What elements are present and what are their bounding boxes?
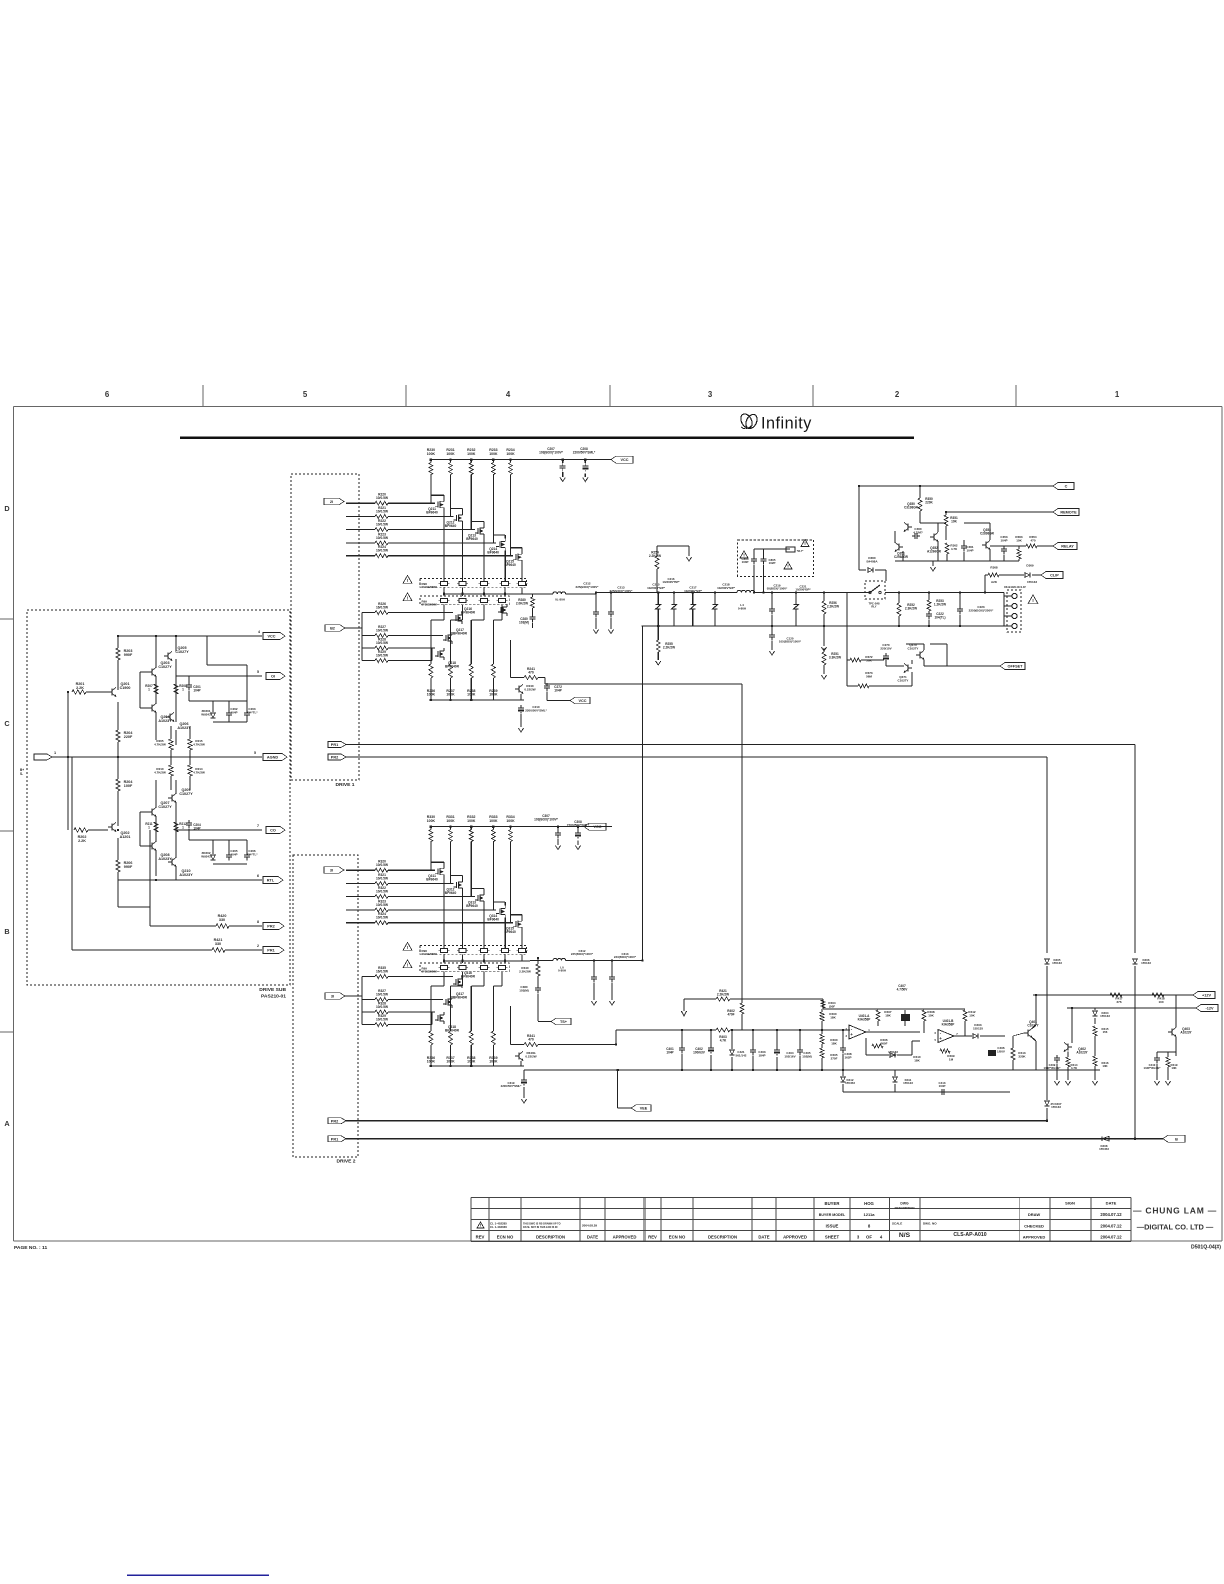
svg-text:REV: REV — [476, 1235, 485, 1240]
wire PR2 bus upper — [346, 756, 1047, 758]
resistor R327 10/0.5W — [376, 989, 389, 997]
junction — [731, 1029, 733, 1031]
junction — [67, 691, 69, 693]
capacitor C212 225BOX — [576, 582, 600, 589]
fusible resistor element — [459, 965, 466, 969]
junction — [945, 511, 947, 513]
wire strip2 drop lower — [462, 972, 464, 986]
svg-text:APPROVED: APPROVED — [1023, 1235, 1046, 1240]
svg-text:— CHUNG LAM —: — CHUNG LAM — — [1133, 1206, 1217, 1216]
svg-text:DRIVE 1: DRIVE 1 — [335, 782, 354, 788]
svg-text:220/10V: 220/10V — [880, 646, 891, 650]
wire main out bus upper — [444, 593, 530, 595]
svg-text:224*TL*: 224*TL* — [246, 852, 258, 856]
resistor R205 4.7K/2W — [169, 739, 173, 750]
svg-text:C1027Y: C1027Y — [908, 646, 919, 650]
svg-text:BF9640R: BF9640R — [453, 632, 468, 636]
transistor Q215 BF9640 — [517, 554, 519, 561]
svg-text:103(BOX)*100V*: 103(BOX)*100V* — [534, 817, 559, 821]
junction — [752, 1029, 754, 1031]
fusible resistor strip 1 — [420, 579, 527, 588]
ground r254 — [686, 557, 691, 561]
junction — [430, 1065, 432, 1067]
junction — [1071, 1007, 1073, 1009]
svg-text:C1027Y: C1027Y — [175, 650, 189, 654]
svg-text:DATE: DATE — [758, 1235, 769, 1240]
svg-text:155133: 155133 — [1141, 961, 1151, 965]
connector OFFSET out — [1000, 663, 1025, 670]
junction — [509, 825, 511, 827]
fusible resistor element — [502, 948, 509, 952]
capacitor C216 10/200V — [662, 577, 680, 584]
svg-text:10/0.5W: 10/0.5W — [376, 877, 389, 881]
wire RTL rail — [118, 879, 262, 881]
transistor Q315 BF9640 — [517, 921, 519, 928]
svg-text:10/0.5W: 10/0.5W — [376, 536, 389, 540]
svg-text:RTL: RTL — [267, 879, 275, 883]
svg-text:N/S: N/S — [899, 1232, 911, 1239]
wire strip2 drop lower — [501, 972, 503, 986]
fusible resistor strip 1 — [420, 946, 527, 955]
wire PR1 bus lower — [346, 1138, 1163, 1140]
svg-text:RLY: RLY — [871, 605, 876, 609]
svg-text:-12V: -12V — [1205, 1007, 1213, 1011]
svg-text:155133: 155133 — [1051, 1105, 1061, 1109]
svg-text:APPROVED: APPROVED — [613, 1235, 637, 1240]
resistor R226 16/0.5W — [376, 602, 389, 610]
svg-text:10/0.5W: 10/0.5W — [376, 523, 389, 527]
junction — [753, 591, 755, 593]
svg-text:10/200V*BP*: 10/200V*BP* — [717, 586, 736, 590]
terminal pin — [1012, 613, 1017, 618]
wire opamp bus B — [616, 1029, 716, 1031]
svg-text:102(M): 102(M) — [802, 1054, 812, 1058]
svg-text:2.2K: 2.2K — [76, 686, 84, 690]
svg-text:BF9640: BF9640 — [504, 930, 516, 934]
svg-text:102/16V: 102/16V — [784, 1054, 795, 1058]
svg-text:SHEET: SHEET — [825, 1235, 840, 1240]
capacitor C220 105BOX — [771, 626, 773, 632]
svg-text:PR2: PR2 — [267, 925, 274, 929]
resistor R241 470 — [524, 676, 538, 680]
svg-text:CHECKED: CHECKED — [1024, 1224, 1044, 1229]
wire PR1 bus upper — [346, 744, 1135, 746]
resistor R413 320K — [1018, 1051, 1026, 1058]
junction — [771, 591, 773, 593]
transistor Q210 A1023Y — [171, 859, 173, 866]
wire vcc top rail — [431, 826, 612, 828]
transistor Q370 C1027Y — [919, 652, 921, 659]
svg-text:W9243: W9243 — [201, 712, 211, 716]
wire PR2 bus lower — [346, 1120, 1047, 1122]
svg-text:100K: 100K — [446, 452, 455, 456]
fusible resistor element — [481, 598, 488, 602]
svg-text:10/0.5W: 10/0.5W — [376, 510, 389, 514]
capacitor C219 105BOX — [767, 584, 788, 591]
svg-text:104P: 104P — [193, 688, 200, 692]
fusible resistor element — [459, 948, 466, 952]
svg-text:155453: 155453 — [845, 1081, 855, 1085]
transistor Q204 A1023Y — [151, 705, 153, 712]
junction — [557, 825, 559, 827]
wire opamp A out — [866, 1031, 920, 1033]
svg-text:2004.08.29: 2004.08.29 — [582, 1224, 597, 1228]
svg-text:18K: 18K — [830, 1015, 836, 1019]
fusible resistor element — [459, 598, 466, 602]
svg-text:DESCRIPTION: DESCRIPTION — [536, 1235, 565, 1240]
capacitor C404 102/16V — [784, 1051, 795, 1058]
capacitor C319 2200/50V — [523, 1077, 525, 1080]
svg-text:2200/50V*SML*: 2200/50V*SML* — [573, 450, 596, 454]
junction — [117, 756, 119, 758]
junction — [615, 1043, 617, 1045]
svg-text:1: 1 — [182, 825, 184, 829]
transistor Q371 C1027Y — [907, 665, 909, 672]
svg-text:100K: 100K — [427, 452, 436, 456]
svg-text:4.7K/2W: 4.7K/2W — [154, 770, 166, 774]
wire D405 down — [1046, 966, 1048, 1100]
resistor R333 100K — [489, 815, 498, 823]
resistor R334 100K — [506, 815, 515, 823]
resistor R236 100K — [430, 620, 432, 664]
svg-text:103(M): 103(M) — [519, 988, 529, 992]
junction — [752, 1069, 754, 1071]
resistor R256 2.2K/2W — [823, 593, 825, 602]
svg-text:2250(BOX)*250V*: 2250(BOX)*250V* — [969, 608, 994, 612]
svg-text:10/0.5W: 10/0.5W — [376, 549, 389, 553]
capacitor C207 103BOX — [539, 447, 564, 454]
transistor Q208 A1023Y — [151, 843, 153, 850]
connector CO out — [266, 827, 285, 834]
svg-text:225(BOX)*100V*: 225(BOX)*100V* — [571, 952, 594, 956]
wire q401 collector to rail — [1032, 1025, 1036, 1029]
ground q cluster — [932, 561, 934, 566]
junction — [611, 959, 613, 961]
title block headers — [476, 1235, 883, 1240]
junction — [616, 1069, 618, 1071]
svg-text:Infinity: Infinity — [761, 415, 812, 433]
junction — [1035, 994, 1037, 996]
svg-text:10K: 10K — [1171, 1066, 1177, 1070]
svg-text:4: 4 — [506, 390, 511, 399]
svg-text:DATE: DATE — [1106, 1201, 1117, 1206]
diode D408 155453 — [1102, 1136, 1109, 1141]
title block dwg fields — [892, 1202, 987, 1240]
warning triangle strip2 — [403, 593, 412, 601]
svg-text:BUYER: BUYER — [825, 1201, 840, 1206]
junction — [584, 458, 586, 460]
resistor R322 10/0.5W — [376, 886, 389, 894]
rows from 3I2 connector — [345, 995, 362, 997]
svg-text:2.0K/2W: 2.0K/2W — [516, 601, 528, 605]
wire strip to bank jogs lower — [431, 985, 444, 987]
svg-text:HOG: HOG — [864, 1201, 874, 1206]
inductor L2 0-80H — [553, 592, 566, 594]
svg-text:560F: 560F — [881, 1041, 888, 1045]
svg-text:BF9640R: BF9640R — [461, 611, 476, 615]
wire strip to bank jogs upper — [431, 619, 444, 621]
resistor R220 10/0.5W — [376, 493, 389, 501]
connector B2 — [325, 625, 345, 632]
junction — [577, 825, 579, 827]
wire opamp loop bottom — [843, 1091, 1010, 1093]
junction — [776, 1029, 778, 1031]
svg-text:SIGN: SIGN — [1065, 1201, 1075, 1206]
capacitor C401 104P — [666, 1047, 674, 1054]
junction — [928, 591, 930, 593]
svg-text:R368: R368 — [990, 566, 998, 570]
svg-text:220K: 220K — [925, 500, 933, 504]
junction — [898, 625, 900, 627]
wire feed vertical x742 — [545, 683, 742, 685]
inductor L4 0-80H — [737, 590, 755, 592]
wires offset cluster — [885, 662, 887, 666]
transistor Q209 C1027Y — [171, 795, 173, 802]
svg-text:(50F: (50F — [829, 1004, 835, 1008]
resistor R237 100K — [450, 620, 452, 664]
junction — [710, 1069, 712, 1071]
diode D412 155453 — [845, 1078, 855, 1085]
svg-text:CO: CO — [270, 829, 276, 833]
fusible resistor element — [441, 598, 448, 602]
svg-text:BUYER MODEL: BUYER MODEL — [819, 1213, 846, 1217]
resistor R222 10/0.5W — [376, 519, 389, 527]
transistor Q401 C1027Y — [1027, 1030, 1029, 1037]
junction — [842, 1029, 844, 1031]
resistor R332 100K — [467, 815, 476, 823]
junction — [461, 960, 463, 962]
svg-text:7: 7 — [257, 824, 259, 828]
wire opamp rail A — [823, 1008, 965, 1010]
svg-text:PAS210-01: PAS210-01 — [261, 994, 286, 1000]
resistor R330 100K — [427, 815, 436, 823]
transistor Q217 BF9640R — [447, 635, 449, 642]
svg-text:105(BOX)*100V*: 105(BOX)*100V* — [779, 640, 802, 644]
fusible resistor strip 2 — [420, 963, 509, 972]
svg-text:330: 330 — [215, 942, 221, 946]
wire ch2 emitter bus — [524, 1069, 1100, 1071]
resistor R336 100K — [430, 986, 432, 1031]
capacitor C222 104TL — [928, 611, 930, 614]
svg-text:5: 5 — [303, 390, 308, 399]
junction — [799, 1069, 801, 1071]
connector B3 — [325, 993, 345, 1000]
column ticks — [202, 385, 204, 407]
svg-text:4.7K/2W: 4.7K/2W — [193, 770, 205, 774]
svg-text:DWG: DWG — [900, 1202, 909, 1206]
ground stub input rail — [683, 999, 685, 1011]
junction — [919, 485, 921, 487]
connector AGND out — [263, 754, 287, 761]
junction — [593, 959, 595, 961]
title block buyer fields — [819, 1201, 875, 1229]
connector OI out — [266, 673, 285, 680]
resistor R372 56K — [865, 655, 873, 662]
diode D402 155133 feedback — [888, 1050, 898, 1057]
connector VEE out — [631, 1105, 651, 1112]
resistor R280 2.0K/2W — [531, 597, 535, 608]
svg-text:1: 1 — [148, 825, 150, 829]
resistor R207 1 — [154, 684, 158, 694]
svg-text:C1900: C1900 — [120, 686, 131, 690]
capacitor C353 104P — [1000, 535, 1008, 542]
connector PR2 out — [263, 923, 284, 930]
transistor Q353 C2898GR — [985, 542, 987, 549]
svg-text:DRIVE SUB: DRIVE SUB — [259, 987, 286, 993]
svg-text:162P: 162P — [844, 1055, 851, 1059]
svg-text:OFFSET: OFFSET — [1008, 665, 1024, 669]
svg-text:B: B — [1175, 1137, 1178, 1141]
svg-text:D501Q-04(#): D501Q-04(#) — [1191, 1245, 1221, 1251]
junction — [470, 825, 472, 827]
connector REMOTE out — [1053, 509, 1079, 516]
junction — [959, 591, 961, 593]
resistor R321 10/0.5W — [376, 873, 389, 881]
svg-text:10/200V*BP*: 10/200V*BP* — [662, 580, 680, 584]
resistor R232 100K — [467, 448, 476, 456]
svg-text:1/50V: 1/50V — [997, 1049, 1005, 1053]
svg-text:C1027Y: C1027Y — [158, 805, 172, 809]
svg-text:OF: OF — [866, 1235, 872, 1240]
resistor R421 2.2K/2W — [717, 989, 729, 996]
junction — [595, 591, 597, 593]
svg-text:VCC: VCC — [620, 458, 628, 462]
svg-text:!: ! — [407, 962, 409, 967]
svg-text:100F: 100F — [124, 784, 133, 788]
drive1 module outline — [291, 474, 359, 780]
wire lower cap rail — [642, 625, 1004, 627]
junction — [449, 1065, 451, 1067]
resistor R415 156 — [1102, 1027, 1109, 1034]
svg-text:+12V: +12V — [1202, 994, 1211, 998]
svg-text:100: 100 — [1158, 1000, 1163, 1004]
capacitor C272 104P — [546, 683, 548, 686]
capacitor C204 104P — [188, 820, 190, 823]
wire strip2 drop lower — [483, 972, 485, 986]
resistor R234 100K — [506, 448, 515, 456]
wire input — [52, 756, 68, 758]
resistor R351 10K — [945, 512, 947, 515]
junction — [430, 699, 432, 701]
junction — [858, 485, 860, 487]
svg-text:BF9640: BF9640 — [466, 537, 478, 541]
title block ecn row — [477, 1222, 597, 1230]
warning triangle relay3 — [801, 540, 809, 547]
connector input pin 1 — [34, 754, 52, 760]
footer blue mark — [127, 1574, 269, 1576]
resistor R405 270F — [830, 1053, 838, 1060]
resistor R331 100K — [446, 815, 455, 823]
svg-text:C1027Y: C1027Y — [158, 665, 172, 669]
junction — [821, 1029, 823, 1031]
wire step to opamp bus — [615, 1030, 617, 1045]
svg-text:3I: 3I — [331, 995, 334, 999]
transistor Q352 A1266GR — [933, 534, 935, 541]
svg-text:RELAY: RELAY — [1061, 545, 1074, 549]
junction — [504, 593, 506, 595]
wires b3 cluster — [432, 976, 453, 978]
svg-text:155133: 155133 — [1052, 961, 1062, 965]
resistor R221 10/0.5W — [376, 506, 389, 514]
svg-text:BF9640: BF9640 — [466, 904, 478, 908]
svg-text:AGND: AGND — [267, 756, 278, 760]
svg-text:ECN NO: ECN NO — [497, 1235, 514, 1240]
junction — [1134, 1138, 1136, 1140]
svg-text:276: 276 — [1116, 1000, 1121, 1004]
svg-text:155135: 155135 — [973, 1026, 983, 1030]
resistor R418 100 — [1157, 997, 1165, 1004]
svg-text:0L-80H: 0L-80H — [555, 598, 565, 602]
capacitor C206 224TL — [246, 852, 248, 855]
svg-text:A1201: A1201 — [120, 835, 131, 839]
wire lower bank bus — [431, 699, 524, 701]
wire AGND rail — [52, 756, 262, 758]
resistor R407 18K — [884, 1010, 892, 1017]
transistor Q316 BF9640R — [457, 979, 459, 986]
svg-text:184P: 184P — [758, 1053, 765, 1057]
drive2 module outline — [293, 855, 358, 1157]
svg-text:A1023Y: A1023Y — [158, 857, 172, 861]
connector +12V — [1193, 992, 1215, 999]
svg-text:470F: 470F — [727, 1012, 734, 1016]
capacitor C213 225BOX — [610, 586, 634, 593]
wire relay drop — [885, 570, 887, 581]
resistor R229 10/0.5W — [376, 650, 389, 658]
wires upper cluster — [155, 636, 157, 668]
svg-text:2004.07.12: 2004.07.12 — [1100, 1235, 1122, 1240]
svg-text:104P: 104P — [666, 1050, 673, 1054]
svg-text:STC822MMM: STC822MMM — [422, 971, 437, 974]
svg-text:4.7K: 4.7K — [951, 547, 958, 551]
svg-text:A1266GR: A1266GR — [927, 549, 942, 553]
transistor Q403 A1023Y — [1171, 1029, 1173, 1036]
diode D407 155133 — [1051, 1102, 1062, 1109]
transistor Q212 BF9640 — [458, 515, 460, 522]
resistor R400b 18K — [829, 1012, 837, 1019]
svg-text:103(M): 103(M) — [519, 620, 529, 624]
relay contact RLY — [865, 581, 885, 599]
capacitor bank element — [714, 593, 716, 605]
capacitor C208 2200/50V — [573, 447, 596, 454]
svg-text:4.7K/2W: 4.7K/2W — [154, 742, 166, 746]
transistor Q219 driver — [518, 686, 520, 693]
svg-text:102P: 102P — [769, 561, 776, 565]
svg-text:DATE: DATE — [587, 1235, 598, 1240]
junction — [710, 1029, 712, 1031]
resistor R208 1 — [174, 684, 178, 694]
svg-text:10/0.5W: 10/0.5W — [376, 1005, 389, 1009]
transistor Q220 — [502, 607, 504, 614]
wire PR1 rail — [72, 949, 212, 951]
resistor R417 276 — [1115, 997, 1123, 1004]
svg-text:A: A — [4, 1119, 10, 1128]
wire clip drop — [985, 574, 988, 576]
wire input split vertical — [71, 757, 73, 950]
capacitor C403 184P — [758, 1050, 766, 1057]
svg-text:10/0.5W: 10/0.5W — [376, 654, 389, 658]
svg-text:C1027Y: C1027Y — [179, 792, 193, 796]
wires q cluster — [894, 531, 896, 543]
svg-text:2: 2 — [257, 944, 259, 948]
svg-text:0.22/2W: 0.22/2W — [524, 687, 535, 691]
svg-text:18K: 18K — [831, 1041, 837, 1045]
svg-text:156: 156 — [1103, 1030, 1108, 1034]
wire output link vertical x642 — [642, 626, 644, 961]
resistor R420 330 — [216, 924, 229, 928]
svg-text:155453: 155453 — [1099, 1147, 1109, 1151]
resistor R227 10/0.5W — [376, 625, 389, 633]
junction — [117, 635, 119, 637]
